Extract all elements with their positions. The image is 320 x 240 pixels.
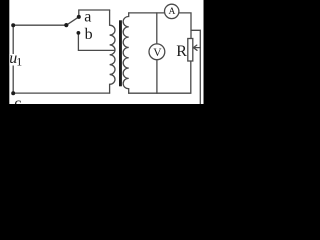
rheostat wiper arrow [194,47,201,49]
label u1 white backing [9,54,20,66]
node c: bottom-left junction dot [11,91,15,95]
wire: secondary top lead to ammeter [129,12,165,14]
background black frame [0,0,215,123]
transformer core bar [119,20,122,86]
wire: contact b branch down and right to primary tap [78,34,114,51]
resistor R body [188,39,193,62]
wire: top-left horizontal to switch pole [13,24,66,26]
wire: rheostat slider arm [191,30,200,104]
node: contact a dot [77,15,81,19]
svg-text:1: 1 [16,55,22,69]
svg-text:A: A [169,7,176,17]
svg-text:a: a [84,9,91,26]
white drawing area [9,0,203,104]
svg-text:b: b [85,26,93,43]
wire: voltmeter top branch [156,13,158,44]
ammeter U3 circle [165,4,179,18]
switch S blade (pole to contact a) [66,17,79,25]
black frame: right column [204,0,215,123]
node: contact b dot [77,31,81,35]
transformer T1 primary winding [110,10,115,93]
wire: bottom-right rail (secondary bottom to resistor lead) [129,61,191,93]
wire: ammeter right lead down to resistor top [179,13,191,39]
svg-text:R: R [176,43,187,60]
black frame: bottom band [0,104,215,123]
wire: left vertical source branch [12,25,14,93]
wire: bottom-left rail (primary bottom to node c) [13,92,109,94]
voltmeter U2 circle [149,44,165,60]
svg-text:V: V [153,47,162,59]
wire: stub from contact a up to top rail [79,10,110,17]
black frame: left column [0,0,9,123]
wire: voltmeter bottom branch [156,60,158,93]
transformer T1 secondary winding [123,13,129,93]
node: left top junction dot [11,23,15,27]
node: switch pole dot [64,23,68,27]
